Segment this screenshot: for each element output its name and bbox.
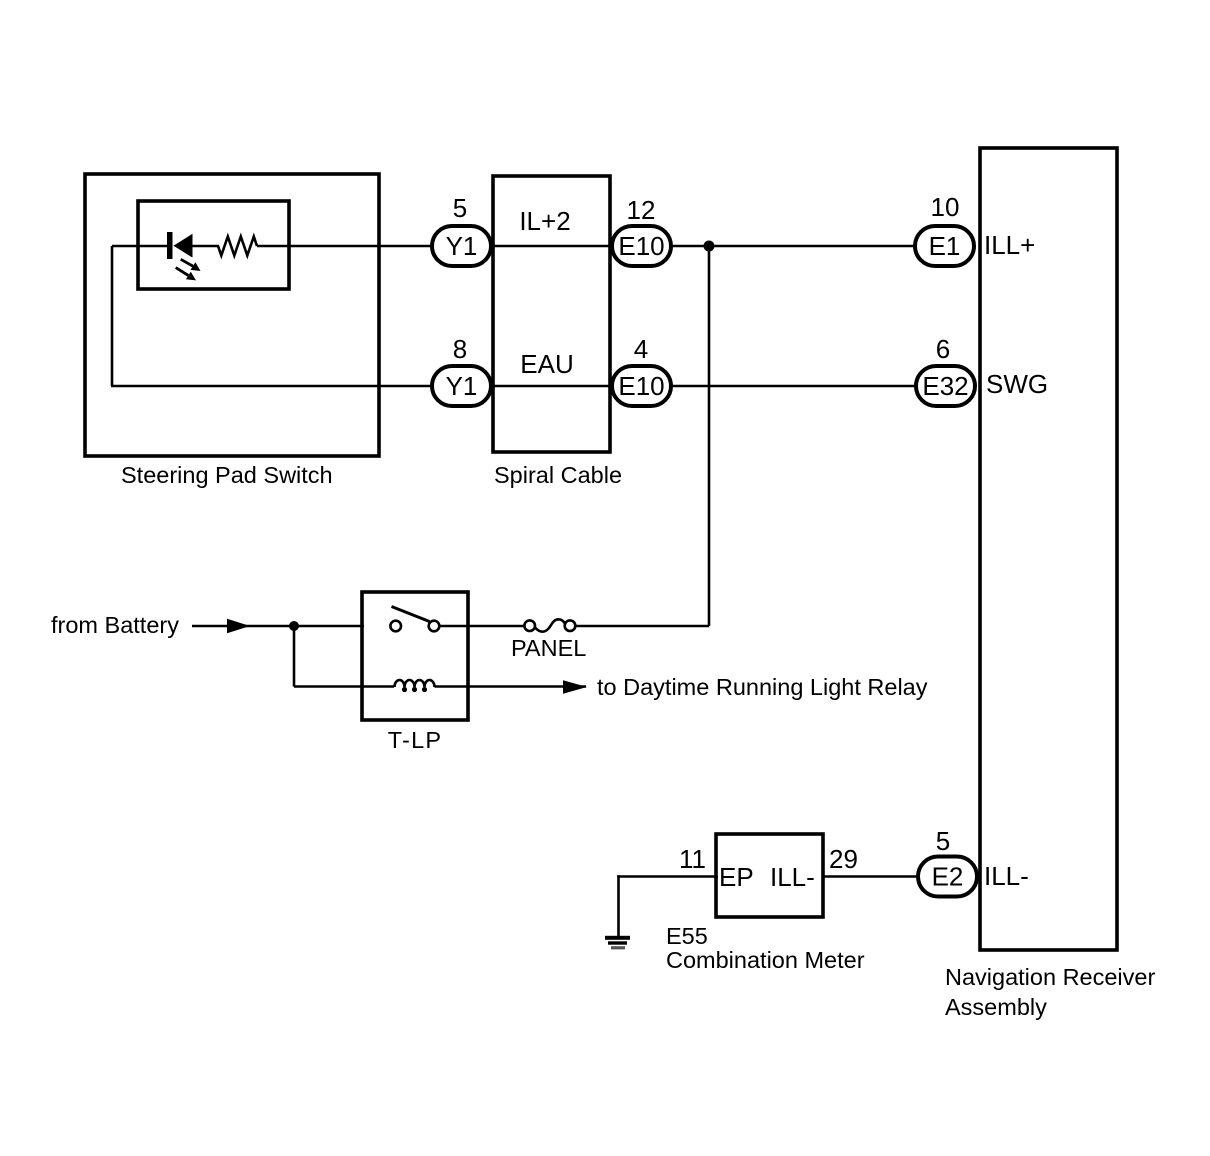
svg-text:EAU: EAU: [520, 349, 573, 379]
svg-text:EP: EP: [719, 862, 754, 892]
svg-text:E32: E32: [922, 371, 968, 401]
wire: junction down to PANEL row: [708, 246, 711, 626]
junction node on ILL+ wire: [704, 241, 715, 252]
svg-text:11: 11: [679, 844, 706, 874]
box: Steering Pad Switch: [85, 174, 379, 456]
svg-text:29: 29: [829, 844, 858, 874]
svg-text:ILL+: ILL+: [984, 230, 1035, 260]
svg-text:5: 5: [453, 193, 467, 223]
box: Spiral Cable: [493, 176, 610, 452]
svg-text:SWG: SWG: [986, 369, 1048, 399]
connector E10 pin 4 (oval): [612, 366, 671, 406]
svg-text:PANEL: PANEL: [511, 635, 586, 661]
relay switch lever: [392, 607, 430, 622]
wire: left return vertical: [111, 246, 114, 386]
LED D1 emission arrow 1: [181, 259, 201, 271]
fuse PANEL contact right: [565, 620, 576, 631]
connector E1 pin 10 (oval): [915, 226, 974, 266]
svg-text:from Battery: from Battery: [51, 612, 179, 638]
svg-text:E10: E10: [618, 371, 664, 401]
arrow to daytime running light relay: [563, 680, 587, 693]
wire: EAU through spiral cable: [491, 385, 614, 388]
fuse PANEL contact left: [524, 620, 535, 631]
LED D1 cathode bar: [167, 232, 173, 259]
connector E10 pin 12 (oval): [612, 226, 671, 266]
wire: coil row feed: [294, 685, 394, 688]
svg-text:Navigation Receiver: Navigation Receiver: [945, 964, 1155, 990]
connector E32 pin 6 (oval): [916, 366, 975, 406]
wire: resistor to Y1 pin 5: [257, 245, 432, 248]
arrow on battery feed: [227, 619, 250, 633]
wire: bottom return to Y1 pin 8: [111, 385, 432, 388]
junction node battery feed: [289, 621, 299, 631]
box: T-LP relay: [362, 592, 468, 720]
svg-text:Y1: Y1: [446, 371, 478, 401]
svg-text:Spiral Cable: Spiral Cable: [494, 462, 622, 488]
svg-text:Y1: Y1: [446, 231, 478, 261]
box: LED sub-module: [138, 201, 289, 289]
relay coil L: [395, 680, 435, 692]
wire: EP box to E2: [823, 875, 918, 878]
wire: coil to daytime arrow: [435, 685, 587, 688]
svg-text:10: 10: [931, 192, 960, 222]
connector E2 pin 5 (oval): [918, 857, 977, 897]
wire: ground to EP pin 11: [617, 875, 718, 878]
svg-text:T-LP: T-LP: [388, 727, 442, 753]
relay switch contact left: [390, 621, 401, 632]
svg-text:E10: E10: [618, 231, 664, 261]
svg-text:IL+2: IL+2: [519, 206, 570, 236]
svg-text:E55: E55: [666, 923, 708, 949]
wire: junction down to coil row: [293, 626, 296, 687]
box: Combination Meter (EP / ILL-): [716, 834, 823, 917]
resistor R (in LED module): [192, 237, 257, 256]
wire: ground riser: [617, 875, 620, 936]
box: Navigation Receiver Assembly: [980, 148, 1117, 950]
ground symbol: [605, 936, 630, 950]
svg-text:6: 6: [936, 334, 950, 364]
wire: fuse to riser: [575, 625, 709, 628]
LED D1 triangle: [174, 234, 193, 258]
svg-text:8: 8: [453, 334, 467, 364]
svg-text:ILL-: ILL-: [984, 861, 1029, 891]
wire: E10-12 to E1: [671, 245, 915, 248]
wire: IL+2 through spiral cable: [491, 245, 614, 248]
wire: battery feed: [192, 625, 364, 628]
LED D1 emission arrow 2: [176, 268, 196, 281]
svg-text:Combination Meter: Combination Meter: [666, 947, 865, 973]
svg-text:4: 4: [634, 334, 648, 364]
relay switch contact right: [429, 621, 440, 632]
svg-text:Assembly: Assembly: [945, 994, 1047, 1020]
svg-text:Steering Pad Switch: Steering Pad Switch: [121, 462, 333, 488]
wire: switch right to PANEL fuse: [439, 625, 524, 628]
svg-text:12: 12: [627, 195, 656, 225]
connector Y1 pin 8 (oval): [432, 366, 491, 406]
svg-text:to Daytime Running Light Relay: to Daytime Running Light Relay: [597, 674, 928, 700]
connector Y1 pin 5 (oval): [432, 226, 491, 266]
svg-text:E1: E1: [929, 231, 961, 261]
svg-text:E2: E2: [932, 862, 964, 892]
wire: LED anode to left return: [112, 245, 168, 248]
svg-text:ILL-: ILL-: [770, 862, 815, 892]
fuse PANEL element: [535, 619, 566, 631]
svg-text:5: 5: [936, 826, 950, 856]
wire: E10-4 to E32: [671, 385, 916, 388]
